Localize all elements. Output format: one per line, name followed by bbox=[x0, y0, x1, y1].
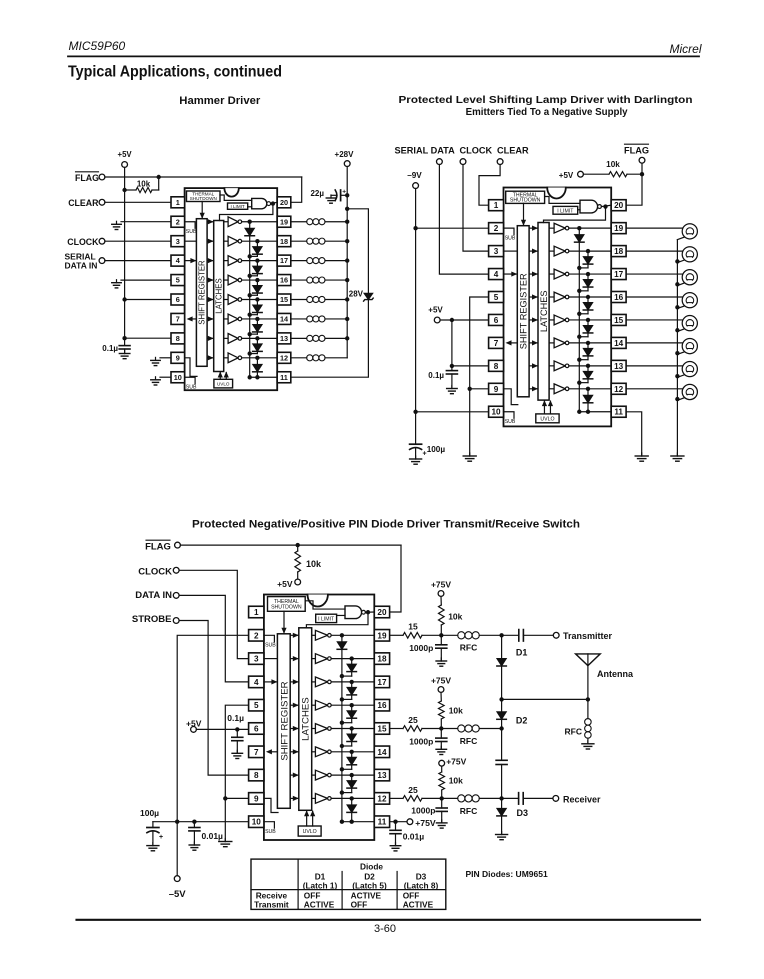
svg-text:(Latch 8): (Latch 8) bbox=[404, 880, 439, 890]
U1 gate output node bbox=[271, 202, 278, 203]
node 0.01u bbox=[192, 820, 196, 824]
U2 pin 2 bbox=[489, 223, 504, 234]
node FLAG/10k junction bbox=[157, 175, 161, 179]
U3 wire inverter to pin 19 bbox=[331, 634, 374, 636]
U2 data arrow shift register to latches row 3 bbox=[529, 250, 537, 252]
lamp return rail bbox=[676, 240, 678, 456]
U3 wire inverter to pin 13 bbox=[331, 774, 374, 776]
node +28V rail pin 19 bbox=[345, 220, 349, 224]
U2 wire inverter to pin 14 bbox=[569, 342, 611, 344]
U3 pin 13 bbox=[374, 769, 389, 781]
U3 LATCHES block bbox=[299, 628, 312, 811]
svg-text:1000p: 1000p bbox=[411, 806, 435, 816]
U1 data arrow shift register to latches row 4 bbox=[207, 260, 213, 262]
svg-text:6: 6 bbox=[254, 724, 259, 733]
svg-text:SUB: SUB bbox=[265, 829, 276, 835]
lamp L14 bbox=[626, 342, 682, 344]
U1 wire inverter to pin 13 bbox=[242, 337, 278, 339]
node lamp rail 12 bbox=[675, 397, 679, 401]
svg-text:8: 8 bbox=[176, 334, 180, 343]
U3 clamp diode on bus (pin 19) bbox=[337, 642, 347, 650]
svg-text:D2: D2 bbox=[516, 716, 528, 726]
U1 clamp bus bottom node bbox=[248, 375, 252, 379]
svg-text:10: 10 bbox=[252, 818, 262, 827]
svg-text:UVLO: UVLO bbox=[303, 829, 317, 835]
U1 clamp diode pin 14 bbox=[255, 317, 259, 321]
U3 wire pin 3 to shift register bbox=[264, 658, 278, 660]
svg-text:(Latch 5): (Latch 5) bbox=[352, 880, 387, 890]
svg-text:100µ: 100µ bbox=[140, 808, 159, 818]
node rail branch bbox=[345, 207, 349, 211]
svg-text:4: 4 bbox=[494, 270, 499, 279]
CLOCK terminal (pin diode) bbox=[173, 567, 179, 573]
node 22u junction bbox=[345, 193, 349, 197]
U2 pin 12 bbox=[611, 383, 626, 394]
CLOCK wire to pin 3 bbox=[463, 165, 489, 252]
U1 clamp diode pin 17 bbox=[255, 258, 259, 262]
inductor hammer coil pin 16 bbox=[291, 279, 307, 281]
U3 pin 15 bbox=[374, 723, 389, 735]
svg-text:ACTIVE: ACTIVE bbox=[304, 900, 335, 910]
svg-text:FLAG: FLAG bbox=[75, 173, 99, 183]
svg-text:1000p: 1000p bbox=[409, 737, 433, 747]
STROBE terminal bbox=[173, 618, 179, 624]
svg-text:UVLO: UVLO bbox=[540, 416, 554, 422]
U1 pin 7 bbox=[171, 313, 185, 324]
-9V terminal bbox=[413, 183, 419, 189]
U3 gate output node bbox=[365, 611, 374, 613]
U3 I LIMIT block bbox=[316, 614, 337, 622]
svg-text:10: 10 bbox=[174, 373, 182, 382]
U1 pin 11 bbox=[277, 372, 291, 383]
svg-text:CLOCK: CLOCK bbox=[138, 567, 172, 578]
U3 pin 4 bbox=[249, 676, 264, 688]
U3 clamp diode pin 15 bbox=[350, 726, 354, 730]
svg-text:2: 2 bbox=[176, 217, 180, 226]
svg-text:15: 15 bbox=[408, 622, 418, 632]
svg-text:Antenna: Antenna bbox=[597, 669, 634, 679]
inductor hammer coil pin 13 bbox=[291, 337, 307, 339]
U2 LATCHES block bbox=[538, 223, 549, 401]
U3 data arrow shift register to latches row 7 bbox=[290, 751, 298, 753]
ground pins 5/9 (lamp driver) bbox=[469, 453, 471, 456]
svg-text:+: + bbox=[423, 451, 427, 458]
svg-text:17: 17 bbox=[377, 678, 387, 687]
svg-text:14: 14 bbox=[614, 339, 624, 348]
U1 wire pin 9 internal bbox=[185, 358, 197, 377]
U2 output driver inverter row pin 16 bbox=[549, 296, 554, 298]
node pin 11 bypass bbox=[393, 820, 397, 824]
svg-text:10k: 10k bbox=[448, 612, 462, 622]
U2 pin 14 bbox=[611, 337, 626, 348]
U1 data arrow shift register to latches row 3 bbox=[207, 240, 213, 242]
+5V terminal (pin diode) bbox=[191, 727, 197, 733]
U3 output driver inverter row pin 19 bbox=[312, 634, 316, 636]
U3 wire inverter to pin 14 bbox=[331, 751, 374, 753]
svg-text:I LIMIT: I LIMIT bbox=[230, 204, 244, 209]
U1 pin 5 bbox=[171, 275, 185, 286]
U2 output driver inverter row pin 14 bbox=[549, 342, 554, 344]
svg-text:19: 19 bbox=[280, 217, 288, 226]
svg-text:+5V: +5V bbox=[277, 579, 293, 589]
svg-text:18: 18 bbox=[614, 247, 624, 256]
wire to antenna bbox=[502, 698, 588, 700]
U2 pin 4 bbox=[489, 269, 504, 280]
svg-text:+5V: +5V bbox=[118, 150, 133, 159]
svg-text:28V: 28V bbox=[349, 290, 364, 299]
U2 clamp diode pin 14 bbox=[586, 341, 590, 345]
U1 fault NAND gate bbox=[252, 198, 267, 208]
svg-text:MIC59P60: MIC59P60 bbox=[69, 39, 126, 53]
node transmitter bias bbox=[439, 633, 443, 637]
U1 pin 20 bbox=[277, 197, 291, 208]
U2 clamp diode D19 node bbox=[577, 226, 581, 230]
svg-text:SHUTDOWN: SHUTDOWN bbox=[271, 604, 302, 610]
U3 wire I LIMIT to gate input bbox=[337, 614, 345, 616]
IC U1 body outline bbox=[185, 188, 278, 390]
U2 pin 2 SUB stub bbox=[504, 228, 515, 235]
U1 thermal shutdown block bbox=[187, 191, 221, 202]
svg-text:Transmit: Transmit bbox=[254, 900, 289, 910]
U3 thermal shutdown block bbox=[268, 597, 306, 612]
IC U3 package notch bbox=[308, 595, 328, 607]
lamp L12 bbox=[626, 388, 682, 390]
U1 pin 2 bbox=[171, 216, 185, 227]
U2 data arrow shift register to latches row 8 bbox=[529, 365, 537, 367]
svg-text:17: 17 bbox=[614, 270, 624, 279]
svg-text:20: 20 bbox=[614, 201, 624, 210]
+5V terminal (pin diode pullup) bbox=[295, 579, 301, 585]
svg-text:CLEAR: CLEAR bbox=[497, 146, 529, 156]
ground pins 5/9 (pin diode) bbox=[224, 839, 226, 842]
U2 UVLO block bbox=[536, 414, 559, 423]
svg-text:5: 5 bbox=[254, 701, 259, 710]
inductor hammer coil pin 17 bbox=[291, 260, 307, 262]
svg-text:16: 16 bbox=[614, 293, 624, 302]
U2 clamp bus bottom node bbox=[577, 410, 581, 414]
svg-text:19: 19 bbox=[614, 224, 624, 233]
svg-text:20: 20 bbox=[377, 608, 387, 617]
U3 pin 1 bbox=[249, 606, 264, 618]
svg-text:100µ: 100µ bbox=[427, 445, 446, 454]
ground at pin 10 bbox=[160, 376, 171, 378]
svg-text:22µ: 22µ bbox=[310, 189, 324, 198]
U1 output driver inverter row pin 12 bbox=[224, 357, 228, 359]
wire pin 11 to ground bbox=[626, 412, 642, 456]
U1 pin 10 SUB stub bbox=[185, 377, 196, 384]
U2 data arrow shift register to latches row 5 bbox=[529, 296, 537, 298]
svg-text:1: 1 bbox=[494, 201, 499, 210]
U3 output driver inverter row pin 14 bbox=[312, 751, 316, 753]
svg-text:+75V: +75V bbox=[415, 818, 436, 828]
U3 pin 17 bbox=[374, 676, 389, 688]
svg-text:DATA IN: DATA IN bbox=[65, 261, 98, 271]
ground at pin 9 bbox=[160, 357, 171, 359]
wire -9V to pin 2 bbox=[416, 227, 489, 229]
ground lamp rail bbox=[676, 453, 678, 456]
U1 pin 10 bbox=[171, 372, 185, 383]
U3 pin 12 bbox=[374, 793, 389, 805]
svg-text:Hammer Driver: Hammer Driver bbox=[179, 95, 261, 107]
node lamp rail 14 bbox=[675, 351, 679, 355]
U3 pin 6 bbox=[249, 723, 264, 735]
U1 clamp diode pin 13 bbox=[255, 336, 259, 340]
svg-text:5: 5 bbox=[176, 276, 180, 285]
U3 output driver inverter row pin 13 bbox=[312, 774, 316, 776]
U3 pin 14 bbox=[374, 746, 389, 758]
U1 LATCHES block bbox=[214, 221, 224, 372]
svg-text:20: 20 bbox=[280, 198, 288, 207]
svg-text:SHIFT REGISTER: SHIFT REGISTER bbox=[279, 681, 290, 760]
svg-text:Protected Negative/Positive PI: Protected Negative/Positive PIN Diode Dr… bbox=[192, 519, 580, 531]
CLEAR terminal bbox=[497, 159, 503, 165]
U3 clamp bus bottom node bbox=[340, 820, 344, 824]
U3 pin 16 bbox=[374, 699, 389, 711]
node receiver bias bbox=[440, 796, 444, 800]
svg-text:7: 7 bbox=[254, 748, 259, 757]
U2 wire pin 4 to shift register (data in arrow) bbox=[504, 273, 517, 275]
svg-text:SUB: SUB bbox=[186, 385, 197, 391]
wire +5V to pin 8 bbox=[452, 320, 489, 366]
svg-text:10k: 10k bbox=[606, 160, 620, 169]
svg-text:ACTIVE: ACTIVE bbox=[403, 900, 434, 910]
U1 I LIMIT block bbox=[228, 203, 248, 209]
U2 row 11 internal wire bbox=[579, 411, 611, 413]
U1 pin 13 bbox=[277, 333, 291, 344]
U3 wire pin 4 to shift register (data in arrow) bbox=[264, 681, 277, 683]
U1 wire I LIMIT to gate input bbox=[248, 206, 252, 208]
wire pin 5 / pin 9 to ground bbox=[470, 297, 489, 456]
node +28V rail pin 16 bbox=[345, 278, 349, 282]
svg-text:0.1µ: 0.1µ bbox=[227, 713, 244, 723]
node lamp rail 17 bbox=[675, 282, 679, 286]
inductor hammer coil pin 14 bbox=[291, 318, 307, 320]
svg-text:14: 14 bbox=[280, 315, 289, 324]
U2 pin 1 bbox=[489, 200, 504, 211]
wire pin 2 to -5V bbox=[177, 635, 248, 875]
U1 output driver inverter row pin 15 bbox=[224, 299, 228, 301]
wire +5V to pin 6 bbox=[196, 728, 248, 730]
U1 row 11 internal wire bbox=[250, 376, 278, 378]
svg-text:I LIMIT: I LIMIT bbox=[557, 208, 574, 214]
U3 row 11 internal wire bbox=[342, 821, 374, 823]
svg-text:FLAG: FLAG bbox=[145, 542, 171, 553]
U3 pin 10 SUB stub bbox=[264, 822, 275, 829]
U1 pin 16 bbox=[277, 275, 291, 286]
node lamp rail 18 bbox=[675, 259, 679, 263]
U2 pin 16 bbox=[611, 292, 626, 303]
SERIAL DATA IN wire to pin 4 bbox=[105, 260, 171, 262]
node +28V rail pin 18 bbox=[345, 239, 349, 243]
U1 UVLO arrows to latches bbox=[219, 373, 221, 380]
U3 data arrow shift register to latches row 8 bbox=[290, 774, 298, 776]
U1 clamp diode pin 12 bbox=[255, 356, 259, 360]
svg-text:15: 15 bbox=[280, 295, 288, 304]
wire pin 11 to +75V bbox=[390, 821, 407, 823]
wire -9V to pin 10 bbox=[416, 411, 489, 413]
U2 output driver inverter row pin 12 bbox=[549, 388, 554, 390]
FLAG wire to pin 20 loop bbox=[105, 176, 302, 178]
U2 wire gate output to latches bbox=[544, 207, 606, 223]
U3 data arrow shift register to latches row 6 bbox=[290, 728, 298, 730]
+5V terminal (lamp driver) bbox=[434, 317, 440, 323]
U3 pin 9 bbox=[249, 793, 264, 805]
U1 wire gate output to latches bbox=[220, 204, 273, 221]
U3 clamp diode D19 node bbox=[340, 633, 344, 637]
U2 clamp diode pin 15 bbox=[586, 318, 590, 322]
svg-text:D1: D1 bbox=[516, 648, 528, 658]
U3 data arrow shift register to latches row 9 bbox=[290, 797, 298, 799]
SERIAL DATA wire to pin 4 bbox=[439, 165, 488, 275]
node D2 cathode bbox=[499, 726, 503, 730]
U1 pin 12 bbox=[277, 352, 291, 363]
FLAG wire to pin 20 bbox=[180, 544, 401, 546]
svg-text:10k: 10k bbox=[137, 180, 151, 189]
svg-text:13: 13 bbox=[280, 334, 288, 343]
ground pin 11 (lamp driver) bbox=[641, 453, 643, 456]
svg-text:18: 18 bbox=[377, 655, 387, 664]
+75V terminal (pin 11) bbox=[407, 819, 413, 825]
node lamp rail 16 bbox=[675, 305, 679, 309]
node pin2 vertical bbox=[175, 820, 179, 824]
svg-text:7: 7 bbox=[494, 339, 499, 348]
inductor hammer coil pin 19 bbox=[291, 221, 307, 223]
svg-text:3: 3 bbox=[254, 655, 259, 664]
svg-text:11: 11 bbox=[614, 408, 623, 417]
lamp L15 bbox=[626, 319, 682, 321]
footer rule bbox=[77, 919, 701, 921]
svg-text:17: 17 bbox=[280, 256, 288, 265]
-5V terminal bbox=[174, 876, 180, 882]
svg-text:+5V: +5V bbox=[428, 306, 443, 315]
U2 wire inverter to pin 19 bbox=[569, 227, 611, 229]
node pin9 (pin diode) bbox=[223, 796, 227, 800]
U3 data arrow shift register to latches row 5 bbox=[290, 704, 298, 706]
node middle bias bbox=[439, 726, 443, 730]
svg-text:18: 18 bbox=[280, 237, 288, 246]
lamp L17 bbox=[626, 273, 682, 275]
U2 output driver inverter row pin 19 bbox=[549, 227, 554, 229]
svg-text:Typical Applications, continue: Typical Applications, continued bbox=[68, 64, 282, 81]
svg-text:SUB: SUB bbox=[505, 235, 516, 241]
node lamp rail 13 bbox=[675, 374, 679, 378]
U2 data arrow shift register to latches row 7 bbox=[529, 342, 537, 344]
capacitor coupling (transmitter) bbox=[502, 634, 519, 636]
U3 output driver inverter row pin 12 bbox=[312, 797, 316, 799]
+5V terminal bbox=[122, 162, 128, 168]
U2 wire I LIMIT to gate input bbox=[578, 209, 580, 211]
svg-text:+: + bbox=[159, 834, 163, 841]
U3 pin 10 bbox=[249, 816, 264, 828]
U1 clamp diode on bus (pin 19) bbox=[245, 228, 255, 236]
U2 clamp diode pin 13 bbox=[586, 364, 590, 368]
U2 data arrow shift register to latches row 6 bbox=[529, 319, 537, 321]
svg-text:SHIFT REGISTER: SHIFT REGISTER bbox=[519, 273, 529, 349]
U1 output driver inverter row pin 19 bbox=[224, 221, 228, 223]
U3 clamp diode pin 14 bbox=[350, 750, 354, 754]
capacitor coupling (receiver) bbox=[502, 797, 519, 799]
U1 pin 6 bbox=[171, 294, 185, 305]
table diode truth table bbox=[251, 859, 446, 909]
svg-text:+5V: +5V bbox=[559, 171, 574, 180]
U2 pin 17 bbox=[611, 269, 626, 280]
svg-text:11: 11 bbox=[378, 818, 387, 827]
U2 pin 13 bbox=[611, 360, 626, 371]
svg-text:3: 3 bbox=[494, 247, 499, 256]
U1 pin 4 bbox=[171, 255, 185, 266]
U3 pin 18 bbox=[374, 653, 389, 665]
U2 clamp diode pin 16 bbox=[586, 295, 590, 299]
svg-text:+75V: +75V bbox=[446, 757, 466, 767]
U2 pin 19 bbox=[611, 223, 626, 234]
U3 pin 2 SUB stub bbox=[264, 635, 275, 642]
svg-text:19: 19 bbox=[377, 631, 387, 640]
svg-text:3-60: 3-60 bbox=[374, 923, 396, 935]
inductor hammer coil pin 12 bbox=[291, 357, 307, 359]
U2 pin 9 bbox=[489, 383, 504, 394]
svg-text:Diode: Diode bbox=[360, 861, 383, 871]
U1 clamp diode pin 18 bbox=[255, 239, 259, 243]
svg-text:SHUTDOWN: SHUTDOWN bbox=[510, 198, 541, 204]
U1 pin 8 bbox=[171, 333, 185, 344]
node +28V rail pin 17 bbox=[345, 258, 349, 262]
svg-text:12: 12 bbox=[377, 794, 387, 803]
U1 data arrow shift register to latches row 8 bbox=[207, 337, 213, 339]
node pin9 junction bbox=[468, 387, 472, 391]
wire FLAG down bbox=[641, 163, 643, 174]
U3 clamp diode pin 12 bbox=[350, 796, 354, 800]
svg-text:Receiver: Receiver bbox=[563, 795, 601, 805]
svg-text:D3: D3 bbox=[517, 808, 529, 818]
U1 SHIFT REGISTER block bbox=[196, 219, 207, 367]
svg-text:Transmitter: Transmitter bbox=[563, 631, 613, 641]
CLOCK wire to pin 3 bbox=[105, 240, 171, 242]
U2 data arrow shift register to latches row 9 bbox=[529, 388, 537, 390]
U2 data arrow shift register to latches row 4 bbox=[529, 273, 537, 275]
svg-text:SUB: SUB bbox=[186, 229, 197, 235]
node antenna junction right bbox=[586, 697, 590, 701]
svg-text:0.01µ: 0.01µ bbox=[403, 832, 425, 842]
U1 data arrow shift register to latches row 5 bbox=[207, 279, 213, 281]
U1 UVLO block bbox=[214, 379, 233, 388]
U1 data arrow shift register to latches row 2 bbox=[207, 221, 213, 223]
CLEAR terminal bbox=[99, 199, 105, 205]
capacitor series (vertical) bbox=[501, 729, 503, 761]
svg-text:Emitters Tied To a Negative Su: Emitters Tied To a Negative Supply bbox=[466, 107, 628, 118]
U2 UVLO arrows to latches bbox=[543, 401, 545, 414]
U3 output driver inverter row pin 18 bbox=[312, 658, 316, 660]
svg-text:15: 15 bbox=[377, 724, 387, 733]
node FLAG/10k (pin diode) bbox=[296, 543, 300, 547]
U2 wire inverter to pin 15 bbox=[569, 319, 611, 321]
U1 output driver inverter row pin 16 bbox=[224, 279, 228, 281]
U2 pin 7 bbox=[489, 337, 504, 348]
node -9V pin 2 bbox=[413, 226, 417, 230]
U2 pin 18 bbox=[611, 246, 626, 257]
U2 wire inverter to pin 12 bbox=[569, 388, 611, 390]
svg-text:SHUTDOWN: SHUTDOWN bbox=[190, 196, 217, 201]
U3 data arrow shift register to latches row 2 bbox=[290, 634, 298, 636]
U3 pin 11 bbox=[374, 816, 389, 828]
U2 clamp diode pin 17 bbox=[586, 272, 590, 276]
svg-text:2: 2 bbox=[494, 224, 499, 233]
lamp L19 bbox=[626, 227, 682, 229]
U2 wire inverter to pin 13 bbox=[569, 365, 611, 367]
CLOCK terminal bbox=[99, 238, 105, 244]
U3 pin 7 bbox=[249, 746, 264, 758]
U1 pin 19 bbox=[277, 216, 291, 227]
U2 wire pin 9 internal bbox=[504, 389, 518, 405]
